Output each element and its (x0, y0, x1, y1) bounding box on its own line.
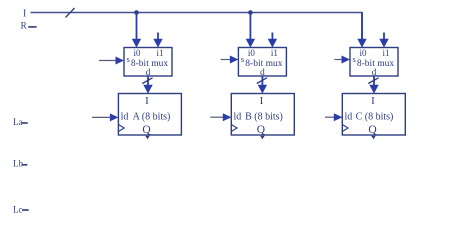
svg-text:i1: i1 (271, 48, 278, 58)
svg-text:R: R (21, 21, 28, 31)
svg-text:s: s (353, 54, 356, 64)
svg-text:Q: Q (257, 124, 266, 136)
svg-text:I: I (23, 8, 26, 19)
svg-text:C (8 bits): C (8 bits) (356, 112, 394, 123)
svg-text:i1: i1 (382, 48, 389, 58)
svg-text:s: s (127, 54, 130, 64)
svg-text:i0: i0 (133, 48, 141, 58)
svg-text:i0: i0 (359, 48, 367, 58)
svg-text:Lc: Lc (13, 205, 23, 215)
svg-text:ld: ld (121, 112, 129, 123)
svg-text:I: I (145, 95, 149, 107)
svg-text:B (8 bits): B (8 bits) (245, 112, 283, 123)
svg-text:Q: Q (142, 124, 151, 136)
svg-text:i1: i1 (156, 48, 163, 58)
svg-text:I: I (371, 95, 375, 107)
svg-text:La: La (13, 117, 23, 127)
svg-text:s: s (241, 54, 244, 64)
svg-text:Lb: Lb (13, 159, 23, 169)
svg-text:ld: ld (345, 112, 353, 123)
svg-text:ld: ld (234, 112, 242, 123)
svg-text:A (8 bits): A (8 bits) (133, 112, 171, 123)
svg-text:Q: Q (368, 124, 377, 136)
svg-text:I: I (260, 95, 264, 107)
svg-text:i0: i0 (248, 48, 256, 58)
